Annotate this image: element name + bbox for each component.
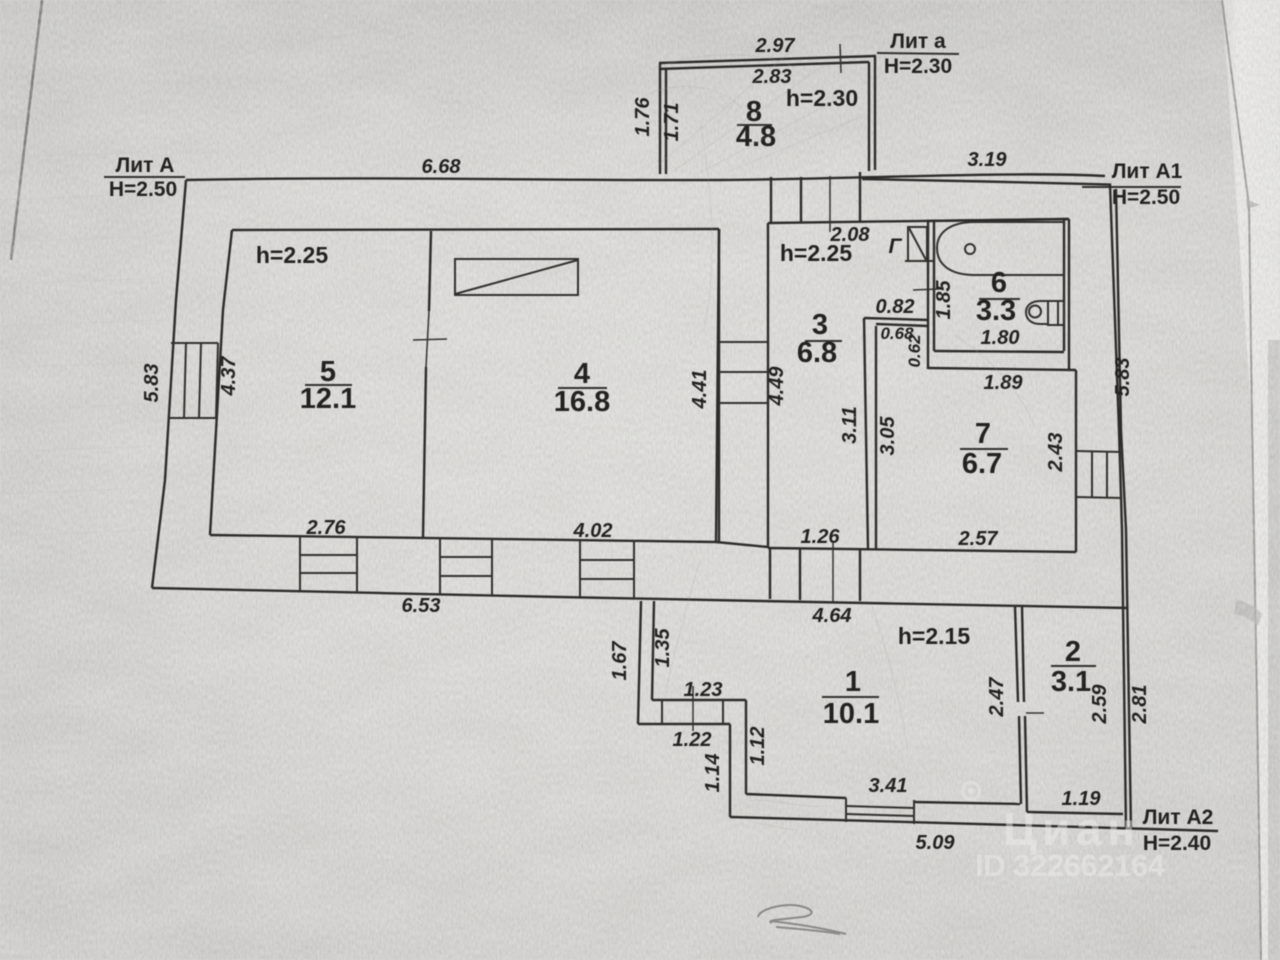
svg-text:2.81: 2.81 [1129, 685, 1151, 725]
svg-text:2.47: 2.47 [986, 677, 1008, 718]
svg-text:4.37: 4.37 [218, 356, 240, 397]
svg-text:3.41: 3.41 [869, 775, 908, 797]
svg-text:1.80: 1.80 [981, 327, 1020, 349]
svg-text:h=2.25: h=2.25 [256, 242, 328, 268]
svg-text:3.11: 3.11 [839, 406, 861, 443]
svg-text:5.83: 5.83 [141, 364, 163, 403]
svg-text:16.8: 16.8 [554, 386, 610, 418]
svg-text:12.1: 12.1 [300, 383, 356, 415]
svg-text:5.09: 5.09 [916, 832, 956, 854]
svg-text:1.85: 1.85 [933, 280, 955, 320]
svg-text:7: 7 [975, 418, 991, 450]
svg-text:4.02: 4.02 [573, 520, 613, 542]
svg-text:2.59: 2.59 [1089, 684, 1111, 725]
svg-text:2.97: 2.97 [755, 35, 796, 57]
svg-text:0.82: 0.82 [876, 296, 915, 318]
svg-text:ID 322662164: ID 322662164 [975, 848, 1166, 883]
svg-text:Г: Г [889, 235, 903, 258]
svg-text:2.57: 2.57 [958, 528, 999, 550]
svg-text:4.49: 4.49 [766, 366, 788, 407]
svg-text:5.83: 5.83 [1112, 358, 1134, 397]
svg-text:H=2.30: H=2.30 [884, 55, 952, 78]
svg-text:2.76: 2.76 [306, 517, 347, 539]
svg-text:Лит А: Лит А [116, 154, 175, 177]
svg-text:1.23: 1.23 [684, 679, 723, 701]
svg-text:6.8: 6.8 [797, 337, 837, 369]
svg-text:1.12: 1.12 [747, 727, 769, 766]
svg-text:1.71: 1.71 [661, 103, 683, 142]
svg-text:4.41: 4.41 [689, 370, 711, 410]
svg-text:h=2.25: h=2.25 [780, 240, 852, 266]
svg-text:3.3: 3.3 [976, 295, 1016, 327]
svg-text:1.22: 1.22 [673, 729, 712, 751]
svg-text:4.8: 4.8 [736, 121, 776, 153]
svg-text:h=2.15: h=2.15 [898, 623, 970, 649]
svg-text:1.89: 1.89 [984, 372, 1024, 394]
svg-text:1: 1 [845, 666, 861, 698]
svg-text:H=2.50: H=2.50 [1112, 186, 1180, 209]
svg-text:3.05: 3.05 [877, 416, 899, 456]
svg-text:6.53: 6.53 [402, 595, 441, 617]
svg-text:3.19: 3.19 [968, 149, 1008, 171]
svg-text:1.35: 1.35 [652, 628, 674, 668]
svg-text:1.67: 1.67 [609, 641, 631, 681]
svg-text:2.43: 2.43 [1045, 433, 1067, 473]
svg-text:1.76: 1.76 [632, 97, 654, 137]
svg-text:10.1: 10.1 [823, 698, 879, 730]
svg-text:3.1: 3.1 [1051, 666, 1091, 698]
svg-text:6.7: 6.7 [962, 448, 1002, 480]
svg-text:Лит А1: Лит А1 [1112, 160, 1183, 183]
svg-text:6.68: 6.68 [422, 156, 462, 178]
svg-text:1.14: 1.14 [702, 754, 724, 793]
svg-text:0.62: 0.62 [905, 334, 924, 368]
svg-text:4.64: 4.64 [812, 605, 852, 627]
svg-text:2: 2 [1065, 636, 1081, 668]
svg-text:H=2.50: H=2.50 [109, 178, 177, 201]
svg-text:1.26: 1.26 [801, 526, 841, 548]
svg-text:Лит А2: Лит А2 [1143, 806, 1214, 829]
svg-text:Лит а: Лит а [890, 30, 946, 53]
